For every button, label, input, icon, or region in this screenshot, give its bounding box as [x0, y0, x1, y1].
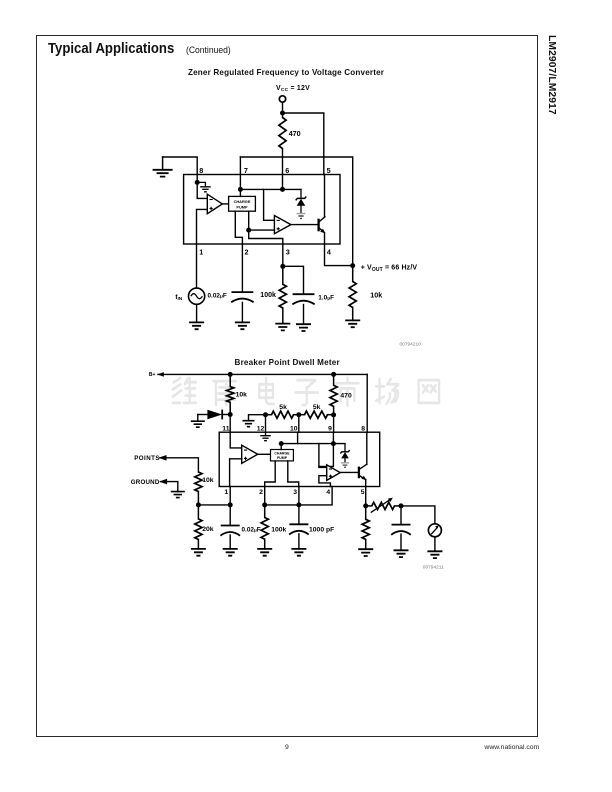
node charge pump top junction (IC2)	[279, 441, 284, 446]
svg-text:5: 5	[361, 489, 365, 496]
wire rail to pin 8	[366, 374, 368, 432]
op-amp/IC LM2907 box (circuit 1)	[184, 175, 340, 245]
wire pin 3 stub	[298, 487, 300, 505]
node pot output junction	[399, 503, 404, 508]
op-amp U1B (output comparator)	[274, 216, 291, 234]
node pin8 internal junction	[195, 180, 200, 185]
ground (pin 12 internal)	[265, 432, 267, 436]
wire pin 12 into IC	[265, 415, 267, 433]
svg-text:00794211: 00794211	[423, 564, 444, 570]
meter M1 (dwell meter movement)	[428, 524, 441, 537]
svg-text:1000 pF: 1000 pF	[309, 527, 334, 534]
wire pin 8 into IC	[196, 175, 198, 183]
diode (points clamp)	[198, 414, 208, 416]
ground (below 0.02uF c2)	[223, 549, 238, 556]
wire Vcc terminal to junction	[282, 102, 284, 113]
op-amp U1A (input comparator)	[207, 194, 222, 214]
wire pin 11 from diode junction	[229, 415, 231, 433]
transistor Q1 (emitter follower, IC1)	[317, 219, 319, 232]
svg-text:GROUND: GROUND	[131, 479, 160, 486]
heading Typical Applications	[48, 41, 174, 57]
svg-text:2: 2	[245, 248, 249, 257]
svg-text:1: 1	[199, 248, 203, 257]
ground (below pin5 resistor)	[358, 549, 373, 556]
svg-text:PUMP: PUMP	[277, 456, 288, 460]
zener diode (internal reference, IC2)	[344, 444, 346, 452]
wire GROUND lead	[161, 482, 178, 492]
ground (pin 12 external)	[243, 421, 255, 427]
resistor 5k (left divider)	[272, 411, 294, 418]
node 470 bottom junction	[331, 412, 336, 417]
ground (zener ground, IC1)	[297, 213, 306, 215]
svg-text:1: 1	[224, 489, 228, 496]
ground (below 10k)	[345, 320, 360, 327]
wire pin 3 to junction	[282, 244, 284, 266]
svg-text:12: 12	[257, 425, 265, 432]
svg-text:10k: 10k	[370, 291, 382, 300]
op-amp U2B (output comparator)	[327, 465, 341, 481]
svg-text:3: 3	[293, 489, 297, 496]
page border frame	[36, 35, 538, 737]
node pin 6 junction	[280, 187, 285, 192]
ground (GROUND terminal)	[171, 492, 185, 498]
transistor Q2 (emitter follower, IC2)	[358, 467, 360, 479]
node pin 5 junction	[363, 503, 368, 508]
wire junction to op-amp U2B inverting input	[319, 444, 334, 467]
wire op-amp U2B output to transistor Q2 base	[340, 471, 359, 473]
svg-text:B+: B+	[149, 372, 156, 378]
svg-text:POINTS: POINTS	[134, 455, 160, 462]
svg-text:7: 7	[244, 166, 248, 175]
svg-text:3: 3	[286, 248, 290, 257]
svg-text:10k: 10k	[236, 391, 248, 398]
wire to op-amp U1B inverting input	[264, 189, 275, 220]
wire pin8 junction to op-amp U1A inverting input	[197, 182, 207, 198]
svg-text:5k: 5k	[313, 404, 321, 411]
wire f_IN to ground	[196, 304, 198, 322]
svg-text:8: 8	[199, 166, 203, 175]
node Vcc junction	[280, 111, 285, 116]
node pin 10 junction	[296, 412, 301, 417]
wire op-amp U1A + input to pin 1	[197, 209, 208, 244]
svg-text:10: 10	[290, 425, 298, 432]
node pin 12 junction	[263, 412, 268, 417]
potentiometer (meter calibrate)	[366, 505, 372, 507]
ground (below 1.0uF)	[296, 324, 311, 331]
charge pump block (IC1)	[229, 196, 256, 211]
ground (below 100k)	[275, 324, 290, 331]
ground (below 1000pF)	[291, 549, 306, 556]
wire charge pump junction to zener	[240, 188, 301, 190]
ground (input ground, circuit 1)	[162, 157, 164, 170]
ground (below meter)	[427, 551, 442, 558]
wire ground to pin 8	[163, 157, 198, 175]
node charge pump output junction	[246, 228, 251, 233]
capacitor (meter filter)	[400, 506, 402, 525]
ground (zener ground, IC2)	[341, 462, 349, 464]
wire pin 9 internal	[332, 432, 334, 443]
wire pin7 top rail to Vout rail	[240, 157, 352, 266]
node pin 2 junction	[262, 502, 267, 507]
wire op-amp U1A output to charge pump	[222, 203, 228, 205]
ground (below f_IN)	[189, 322, 204, 329]
svg-text:2: 2	[259, 489, 263, 496]
ground (diode anode)	[197, 415, 199, 422]
wire pin 10 into IC	[298, 415, 300, 433]
resistor 10k (points divider)	[195, 472, 202, 492]
svg-text:1.0μF: 1.0μF	[318, 295, 334, 302]
wire pin 2 to pin 4 net	[265, 487, 332, 505]
svg-text:VCC = 12V: VCC = 12V	[276, 85, 310, 93]
ground (below 0.02uF)	[235, 322, 250, 329]
node pin 1 junction	[228, 502, 233, 507]
wire charge pump junction to zener (IC2)	[281, 443, 345, 445]
ground (below 20k)	[191, 549, 206, 556]
svg-text:470: 470	[289, 129, 301, 138]
node rail junction at 470	[331, 372, 336, 377]
svg-text:fIN: fIN	[175, 294, 183, 302]
node points divider junction	[196, 502, 201, 507]
svg-text:8: 8	[361, 425, 365, 432]
svg-text:5k: 5k	[279, 404, 287, 411]
source f_IN (input frequency source)	[196, 244, 198, 288]
resistor 5k (right divider)	[305, 411, 328, 418]
capacitor 0.02uF (pin 1 filter)	[229, 505, 231, 526]
capacitor 1.0uF (ripple filter)	[293, 293, 315, 295]
svg-text:100k: 100k	[271, 527, 286, 534]
node Vout junction	[350, 263, 355, 268]
wire pin12 junction to ground	[249, 415, 266, 421]
zener diode (internal reference, IC1)	[300, 189, 302, 198]
wire pin 7 stub	[239, 157, 241, 175]
svg-text:4: 4	[326, 489, 330, 496]
svg-text:9: 9	[328, 425, 332, 432]
svg-text:10k: 10k	[202, 477, 214, 484]
svg-text:CHARGE: CHARGE	[234, 199, 251, 204]
svg-text:470: 470	[340, 393, 352, 400]
capacitor 1000 pF (pin 3)	[298, 505, 300, 524]
resistor 470 (zener feed)	[333, 374, 335, 385]
resistor 100k (pin 2)	[264, 505, 266, 518]
resistor 100k (pin 3 load)	[279, 284, 286, 308]
wire op-amp U2A output to charge pump	[258, 453, 271, 455]
wire pin 11 to op-amp U2A inverting input	[230, 432, 242, 448]
resistor 20k (points divider low)	[197, 505, 199, 519]
wire pin 5 to output node	[365, 487, 367, 506]
wire op-amp U2A + input to pin 1	[230, 459, 242, 487]
wire charge pump pedestal to pins 2 and 3	[265, 461, 276, 487]
resistor 470 (supply)	[282, 113, 284, 118]
wire pin 9 into IC	[333, 415, 335, 432]
wire charge pump left leg to pin 2	[235, 211, 242, 244]
IC LM2917 box (circuit 2)	[219, 432, 380, 486]
wire meter to ground	[434, 537, 436, 552]
svg-text:0.02μF: 0.02μF	[242, 527, 261, 534]
wire junction to 1.0uF cap	[283, 266, 304, 294]
footer page number	[285, 744, 289, 751]
charge pump block (IC2)	[271, 450, 294, 461]
node rail junction at 10k	[228, 372, 233, 377]
ground (below meter cap)	[394, 550, 409, 557]
ground (internal reference, IC1)	[197, 182, 205, 186]
heading (Continued)	[186, 45, 231, 55]
svg-text:6: 6	[285, 166, 289, 175]
wire pin 4 to Vout node	[325, 244, 353, 266]
node charge pump top junction	[238, 187, 243, 192]
wire pin 10 internal	[297, 432, 299, 443]
wire junction to pin 3	[249, 230, 283, 244]
svg-text:0.02μF: 0.02μF	[208, 293, 227, 300]
svg-text:4: 4	[327, 248, 331, 257]
Vcc terminal (open circle)	[279, 96, 285, 102]
node pin 3 junction	[296, 502, 301, 507]
wire op-amp U1B output to transistor Q1 base	[291, 224, 319, 226]
wire junction to meter	[401, 506, 435, 524]
svg-text:11: 11	[222, 425, 229, 432]
wire op-amp U2B + input to pin 4	[319, 476, 331, 487]
sidebar part number LM2907/LM2917	[542, 34, 558, 154]
node pin 3 junction	[280, 264, 285, 269]
op-amp U2A (input comparator)	[242, 445, 258, 463]
svg-text:+ VOUT = 66 Hz/V: + VOUT = 66 Hz/V	[361, 265, 418, 273]
footer url	[484, 744, 539, 751]
wire charge pump right leg	[248, 211, 250, 230]
node diode junction	[228, 412, 233, 417]
wire charge pump top	[280, 444, 282, 450]
capacitor 0.02uF (pin 2 timing)	[241, 244, 243, 292]
wire junction to op-amp U1B + input	[249, 229, 275, 231]
wire pin 7 into IC to charge pump	[239, 175, 241, 197]
node pin 9 internal junction	[331, 441, 336, 446]
resistor 10k (output load)	[349, 282, 356, 308]
wire Vcc junction to pin 5	[283, 113, 324, 175]
resistor (below pin 5)	[365, 506, 367, 519]
wire B+ rail	[158, 373, 367, 375]
wire pin 6 into IC	[282, 175, 284, 190]
wire pin 1 to points junction	[198, 487, 230, 505]
svg-text:PUMP: PUMP	[236, 205, 248, 210]
svg-text:CHARGE: CHARGE	[274, 452, 290, 456]
ground (below 100k c2)	[257, 549, 272, 556]
resistor 10k (points pullup)	[229, 374, 231, 386]
svg-text:20k: 20k	[202, 526, 214, 533]
svg-text:00794210: 00794210	[400, 342, 422, 348]
svg-text:5: 5	[327, 166, 331, 175]
svg-text:100k: 100k	[260, 292, 276, 299]
schematic titles	[188, 68, 384, 77]
wire POINTS to 10k	[160, 458, 198, 472]
